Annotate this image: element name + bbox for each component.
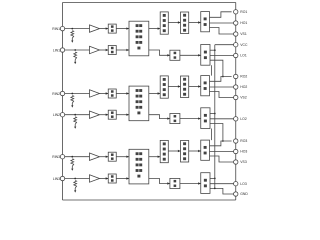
wire LIN2 to amp A2L: [65, 114, 90, 116]
wire driver D3A out2 to HO3: [210, 151, 234, 153]
IC boundary bottom border wire: [63, 199, 236, 201]
cascade wire driver D2B to driver D3A: [211, 129, 213, 141]
output pin LO3: [234, 182, 238, 186]
svg-text:VS1: VS1: [240, 32, 247, 36]
attenuator block L1: [108, 46, 116, 55]
wire RIN2 to amp A2R: [65, 93, 90, 95]
output pin VCC: [234, 43, 238, 47]
wire attenuator R3 to control block: [116, 156, 129, 158]
wire amp to attenuator L3: [100, 178, 109, 180]
op-amp buffer A2L: [90, 111, 100, 118]
junction node LIN2: [74, 114, 76, 116]
output pin HO2: [234, 85, 238, 89]
wire delay to driver D1B: [180, 54, 201, 56]
svg-text:LIN2: LIN2: [53, 113, 60, 117]
pulse filter block 3: [181, 141, 189, 163]
junction at RO3 stub: [222, 140, 224, 142]
resistor on LIN2 node: [74, 117, 77, 125]
junction node LIN3: [74, 178, 76, 180]
output pin RO1: [234, 10, 238, 14]
dead-zone / mode control block U2: [129, 86, 149, 121]
junction at RO2 stub: [222, 76, 224, 78]
wire level-shift to pulse-filter 1: [168, 22, 180, 24]
wire control block to level-shift 2: [149, 93, 160, 95]
svg-text:VCC: VCC: [240, 43, 248, 47]
input pin RIN2: [60, 91, 64, 95]
svg-text:LO1: LO1: [240, 54, 247, 58]
IC boundary left border wire: [62, 3, 64, 201]
wire control block to delay 2: [149, 115, 170, 119]
junction VCC rail at driver D3B out3: [214, 188, 216, 190]
svg-text:LIN1: LIN1: [53, 48, 60, 52]
junction node LIN1: [74, 49, 76, 51]
wire pulse-filter to driver D2A: [189, 86, 201, 88]
output pin HO3: [234, 149, 238, 153]
wire control block to delay 1: [149, 50, 170, 55]
output pin RO3: [234, 139, 238, 143]
attenuator block R2: [108, 89, 116, 98]
op-amp buffer A1R: [90, 25, 100, 32]
output pin VS3: [234, 160, 238, 164]
driver block D1A: [201, 12, 210, 32]
wire control block to level-shift 3: [149, 156, 160, 158]
wire driver D1B out3 down to RO2 node: [210, 60, 223, 76]
svg-text:LO3: LO3: [240, 182, 247, 186]
wire driver D1A out1 to RO1: [210, 12, 232, 17]
wire LIN1 to amp A1L: [65, 49, 90, 51]
wire driver D2A out3 to VS2: [210, 92, 234, 98]
wire driver D2B out3 down to RO3 node: [210, 124, 223, 142]
input pin LIN1: [60, 48, 64, 52]
wire driver D3B out3 to GND pin: [210, 188, 234, 194]
wire level-shift to pulse-filter 2: [168, 86, 180, 88]
wire driver D2B out2 to LO2: [210, 118, 234, 120]
output pin LO2: [234, 117, 238, 121]
svg-text:RO2: RO2: [240, 75, 247, 79]
output pin VS2: [234, 95, 238, 99]
op-amp buffer A3L: [90, 175, 100, 182]
pulse filter block 2: [181, 76, 189, 98]
attenuator block L3: [108, 174, 116, 183]
wire driver D3A out1 to RO3: [210, 141, 232, 146]
output pin HO1: [234, 21, 238, 25]
junction VCC rail group 1: [214, 49, 216, 51]
wire attenuator L3 to control block: [116, 178, 129, 180]
junction VCC rail group 2: [214, 113, 216, 115]
IC boundary top border wire: [63, 2, 236, 4]
wire VCC pin stub: [215, 44, 234, 46]
input pin RIN1: [60, 26, 64, 30]
resistor on RIN2 node: [71, 96, 74, 104]
wire amp to attenuator R2: [100, 93, 109, 95]
pulse filter block 1: [181, 12, 189, 34]
wire amp to attenuator R3: [100, 156, 109, 158]
junction VCC rail group 3: [214, 178, 216, 180]
IC boundary right border wire: [235, 3, 237, 201]
svg-text:LO2: LO2: [240, 117, 247, 121]
resistor on RIN1 node: [71, 31, 74, 38]
svg-text:HO2: HO2: [240, 85, 247, 89]
driver block D1B: [201, 45, 210, 66]
dead-zone / mode control block U1: [129, 21, 149, 56]
resistor on LIN3 node: [74, 181, 77, 189]
resistor on LIN1 node: [74, 52, 77, 60]
wire level-shift to pulse-filter 3: [168, 150, 180, 152]
svg-text:RO3: RO3: [240, 139, 247, 143]
svg-text:RO1: RO1: [240, 10, 247, 14]
wire control block to level-shift 1: [149, 28, 160, 30]
output pin VS1: [234, 32, 238, 36]
output pin RO2: [234, 74, 238, 78]
attenuator block L2: [108, 110, 116, 119]
svg-text:VS2: VS2: [240, 96, 247, 100]
wire pulse-filter to driver D1A: [189, 22, 201, 24]
input pin LIN3: [60, 176, 64, 180]
wire amp to attenuator L1: [100, 49, 109, 51]
input pin RIN3: [60, 155, 64, 159]
delay block 1: [170, 50, 180, 60]
op-amp buffer A3R: [90, 153, 100, 160]
wire RIN3 to amp A3R: [65, 156, 90, 158]
driver block D3B: [201, 173, 210, 194]
wire driver D1A out2 to HO1: [210, 22, 234, 24]
svg-text:RIN3: RIN3: [52, 155, 60, 159]
level shift block 3: [160, 140, 168, 162]
svg-text:RIN2: RIN2: [52, 92, 60, 96]
wire LIN3 to amp A3L: [65, 178, 90, 180]
attenuator block R1: [108, 24, 116, 33]
wire RIN1 to amp A1R: [65, 28, 90, 30]
delay block 2: [170, 114, 180, 124]
wire driver D1A out3 to VS1: [210, 28, 234, 35]
wire attenuator R1 to control block: [116, 28, 129, 30]
junction node RIN1: [71, 28, 73, 30]
wire attenuator R2 to control block: [116, 93, 129, 95]
wire driver D3B out2 to LO3: [210, 183, 234, 185]
svg-text:LIN3: LIN3: [53, 177, 60, 181]
svg-text:RIN1: RIN1: [52, 27, 60, 31]
VCC distribution rail: [214, 45, 216, 189]
wire delay to driver D3B: [180, 183, 201, 185]
wire driver D2A out1 to RO2: [210, 77, 232, 82]
wire driver D1B out2 to LO1: [210, 55, 234, 57]
wire driver D2B out1 to VCC rail: [210, 113, 215, 115]
output pin LO1: [234, 53, 238, 57]
dead-zone / mode control block U3: [129, 149, 149, 184]
resistor on RIN3 node: [71, 159, 74, 167]
wire driver D3A out3 to VS3: [210, 156, 234, 162]
GND pin: [234, 192, 238, 196]
cascade wire driver D1B to driver D2A: [211, 65, 213, 75]
junction node RIN3: [71, 156, 73, 158]
wire control block to delay 3: [149, 179, 170, 184]
driver block D2B: [201, 108, 210, 129]
wire driver D2A out2 to HO2: [210, 86, 234, 88]
wire amp to attenuator L2: [100, 114, 109, 116]
wire driver D3B out1 to VCC rail: [210, 177, 215, 179]
wire pulse-filter to driver D3A: [189, 150, 201, 152]
op-amp buffer A1L: [90, 46, 100, 53]
wire attenuator L1 to control block: [116, 49, 129, 51]
delay block 3: [170, 178, 180, 188]
level shift block 2: [160, 76, 168, 98]
attenuator block R3: [108, 152, 116, 161]
junction node RIN2: [71, 93, 73, 95]
wire amp to attenuator R1: [100, 28, 109, 30]
driver block D3A: [201, 140, 210, 160]
input pin LIN2: [60, 113, 64, 117]
svg-text:GND: GND: [240, 192, 248, 196]
wire driver D1B out1 to VCC rail: [210, 49, 215, 51]
wire delay to driver D2B: [180, 118, 201, 120]
svg-text:VS3: VS3: [240, 160, 247, 164]
wire attenuator L2 to control block: [116, 114, 129, 116]
svg-text:HO1: HO1: [240, 21, 247, 25]
driver block D2A: [201, 76, 210, 96]
svg-text:HO3: HO3: [240, 150, 247, 154]
level shift block 1: [160, 12, 168, 34]
op-amp buffer A2R: [90, 90, 100, 97]
